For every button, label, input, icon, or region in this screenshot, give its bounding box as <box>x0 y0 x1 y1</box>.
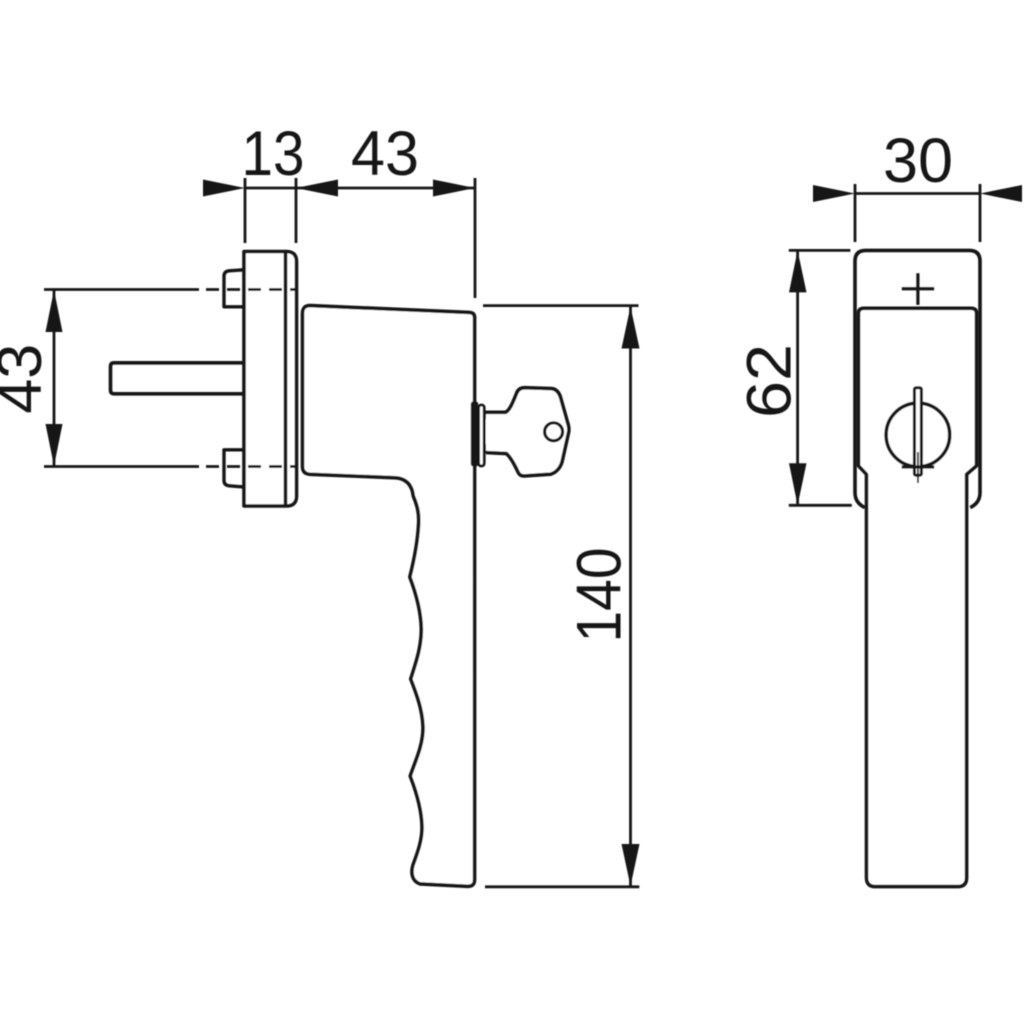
extension line A x=245 <box>244 178 247 243</box>
extension line B x=296 <box>295 178 298 243</box>
arrow 140 top <box>622 307 640 349</box>
plate inner face line <box>284 252 288 507</box>
extension line 140 top <box>483 304 639 307</box>
svg-text:62: 62 <box>735 344 805 418</box>
arrow v43 top <box>46 290 63 332</box>
dim line 43 horizontal <box>296 187 475 190</box>
cylinder circle front <box>886 403 950 467</box>
key bow <box>486 388 569 476</box>
key nub top <box>484 411 489 420</box>
screw top <box>224 270 244 307</box>
dim line 140 <box>629 307 632 887</box>
arrow 62 top <box>789 250 807 292</box>
extension line 140 bottom <box>485 885 639 888</box>
key bow hole <box>545 423 563 441</box>
extension line 30 right <box>979 184 982 242</box>
spindle <box>111 363 245 394</box>
arrow 43 right <box>433 180 475 197</box>
extension line 30 left <box>854 184 857 242</box>
key nub bottom <box>484 444 489 453</box>
arrow 30 right outside <box>980 185 1022 202</box>
center line top dashes <box>206 288 296 291</box>
dim line 13 <box>245 187 296 190</box>
arrow 13 left outside <box>203 180 245 197</box>
key cylinder dark bar <box>471 402 478 467</box>
arrow 43 left <box>296 180 338 197</box>
extension/center line bottom solid <box>44 465 199 468</box>
extension line 62 top <box>789 249 851 252</box>
arrow 140 bottom <box>622 844 640 886</box>
svg-text:30: 30 <box>883 126 953 196</box>
extension/center line top solid <box>44 288 199 291</box>
dim line 62 <box>796 250 799 505</box>
arrow 62 bottom <box>789 463 807 505</box>
handle front inner outline <box>859 308 977 886</box>
arrow v43 bottom <box>46 424 63 466</box>
handle side view outline <box>303 306 475 887</box>
key crossbar front <box>902 465 935 468</box>
arrow 30 left outside <box>813 185 855 202</box>
rosette plate side view <box>244 252 297 507</box>
key bar center line <box>917 452 919 483</box>
rosette front outer <box>855 250 980 507</box>
vertical dim line 43 <box>53 290 56 466</box>
extension line C x=475 <box>474 178 477 298</box>
center line bottom dashes <box>206 465 296 468</box>
svg-text:43: 43 <box>351 119 419 189</box>
key bar front <box>914 388 921 476</box>
screw cross mark <box>902 273 934 305</box>
svg-text:140: 140 <box>565 548 635 643</box>
key cylinder face <box>479 405 485 466</box>
dim line 30 <box>855 192 980 195</box>
svg-text:43: 43 <box>0 344 55 414</box>
screw bottom <box>224 450 244 487</box>
extension line 62 bottom <box>789 504 852 507</box>
